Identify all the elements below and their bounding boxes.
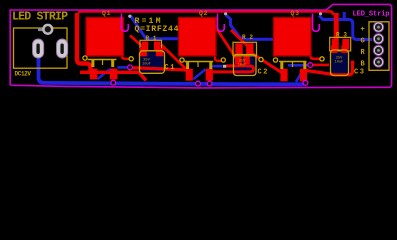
svg-text:LED STRIP: LED STRIP — [12, 11, 68, 24]
svg-text:Q1: Q1 — [102, 10, 111, 17]
svg-text:Q=IRFZ44: Q=IRFZ44 — [135, 25, 179, 34]
svg-text:+: + — [361, 26, 365, 34]
svg-text:G: G — [361, 38, 365, 46]
svg-text:DC12V: DC12V — [15, 70, 32, 77]
svg-text:Q2: Q2 — [199, 10, 208, 17]
svg-text:Q3: Q3 — [291, 10, 300, 17]
svg-text:C3: C3 — [354, 69, 364, 77]
svg-text:C2: C2 — [258, 69, 268, 77]
svg-text:LED_Strip: LED_Strip — [353, 11, 390, 19]
svg-text:C1: C1 — [165, 64, 175, 72]
svg-text:10uF: 10uF — [238, 64, 247, 68]
svg-text:10uF: 10uF — [335, 61, 344, 65]
svg-text:10uF: 10uF — [142, 63, 151, 67]
